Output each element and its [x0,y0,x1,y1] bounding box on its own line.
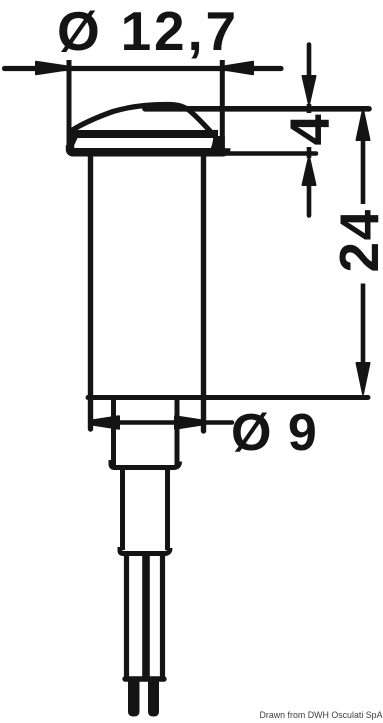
body tube right side [201,156,206,431]
flange bottom line [70,145,226,152]
neck bottom [111,460,180,468]
extension line flange bottom (4 dim) [226,151,316,156]
bezel right side / extension line [220,60,225,149]
dim 24 line with arrows [357,110,370,141]
flange left bevel [67,137,79,150]
arrow right Ø12,7 [225,62,253,74]
neck left side [111,400,116,465]
wire sheath right line [160,556,165,678]
neck right side [175,400,180,465]
dome lens arc [69,104,222,150]
stem bottom [120,547,170,554]
bezel left side / extension line [67,60,72,153]
arrow left Ø12,7 [36,62,66,74]
stem left side [120,468,125,550]
dim Ø9 line and arrows [91,420,232,425]
dim 4 lower arrow stub [307,147,312,158]
dimension line Ø12,7 [5,66,282,71]
svg-text:4: 4 [278,114,341,145]
svg-text:Ø 9: Ø 9 [231,404,318,462]
wire sheath left line [124,556,129,678]
svg-text:Ø 12,7: Ø 12,7 [57,0,239,62]
dome base line [67,130,218,138]
wire tip right [148,681,159,717]
extension line top of lens (4 / 24 datum) [145,106,369,112]
flange right bevel [210,136,225,151]
stem right side [165,468,170,550]
dim 4 upper arrow stub [307,45,312,81]
tube bottom line / 24 extension [88,395,368,400]
wire sheath middle line [142,556,150,678]
body tube left side [88,156,93,429]
svg-text:24: 24 [328,208,383,272]
svg-text:Drawn from DWH Osculati SpA: Drawn from DWH Osculati SpA [260,710,383,721]
wire tip left [128,681,140,717]
wire sheath bottom cap [125,676,164,681]
